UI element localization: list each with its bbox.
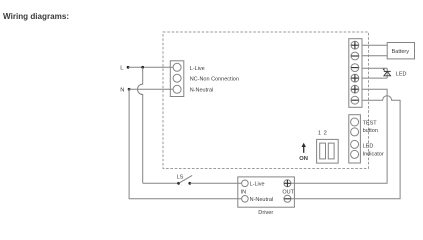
battery box bbox=[387, 43, 414, 59]
LED (diode symbol) bbox=[383, 68, 391, 78]
svg-text:N: N bbox=[120, 87, 124, 93]
TEST button circle 1 bbox=[351, 118, 359, 126]
svg-text:LED: LED bbox=[363, 143, 374, 149]
svg-text:NC-Non Connection: NC-Non Connection bbox=[190, 77, 239, 83]
svg-text:LED: LED bbox=[396, 71, 407, 77]
wire LS switch to driver L-Live bbox=[190, 182, 242, 184]
ON arrow bbox=[302, 143, 306, 153]
wire N to input terminal bbox=[129, 88, 173, 90]
svg-text:LS: LS bbox=[177, 175, 184, 181]
svg-text:OUT: OUT bbox=[282, 189, 294, 195]
wire L to input terminal bbox=[128, 66, 173, 68]
pin 6 (-) bbox=[351, 96, 359, 104]
wire N down to driver bbox=[129, 89, 242, 199]
driver pin - (OUT) bbox=[284, 195, 291, 202]
DIP switch pole 2 bbox=[328, 143, 334, 159]
svg-text:Indicator: Indicator bbox=[363, 152, 384, 158]
node N dot (junction) bbox=[128, 88, 131, 91]
node L dot bbox=[127, 66, 130, 69]
LS switch blade bbox=[179, 175, 193, 183]
DIP switch body bbox=[317, 139, 339, 163]
svg-text:ON: ON bbox=[299, 156, 308, 162]
LS switch contact left bbox=[177, 182, 180, 185]
svg-text:button: button bbox=[363, 128, 378, 134]
DIP switch pole 1 bbox=[320, 143, 326, 159]
svg-text:1: 1 bbox=[318, 131, 321, 137]
svg-text:L-Live: L-Live bbox=[190, 66, 205, 72]
wire battery + bbox=[362, 44, 387, 46]
wire L down to LS switch (with hop over N wire) bbox=[138, 67, 143, 183]
pin 5 (+) bbox=[351, 85, 359, 93]
svg-text:N-Neutral: N-Neutral bbox=[250, 197, 274, 203]
driver pin L-Live bbox=[242, 180, 249, 187]
LED indicator circle 1 bbox=[351, 140, 359, 148]
pin 3 (-) bbox=[351, 64, 359, 72]
driver pin + (OUT) bbox=[284, 180, 291, 187]
TEST/LED indicator block bbox=[349, 115, 361, 163]
pin 1 (+) bbox=[351, 41, 359, 49]
svg-text:Wiring diagrams:: Wiring diagrams: bbox=[3, 12, 69, 21]
wire from L vertical to LS switch bbox=[143, 182, 179, 184]
driver pin N-Neutral bbox=[242, 196, 249, 203]
wire battery - bbox=[362, 55, 387, 57]
wire LED cathode bbox=[362, 67, 387, 69]
wire LED anode bbox=[362, 77, 387, 79]
svg-text:Battery: Battery bbox=[392, 49, 410, 55]
driver box bbox=[238, 177, 295, 207]
svg-text:2: 2 bbox=[324, 131, 327, 137]
pin N-Neutral bbox=[173, 85, 181, 93]
svg-text:IN: IN bbox=[241, 189, 247, 195]
TEST button circle 2 bbox=[351, 128, 359, 136]
junction on L wire bbox=[141, 66, 144, 69]
pin 2 (-) bbox=[351, 52, 359, 60]
wire - output down to driver (hop over + wire) bbox=[291, 96, 400, 199]
svg-text:Driver: Driver bbox=[258, 210, 273, 216]
LS switch contact right bbox=[188, 182, 191, 185]
wire + output down to driver bbox=[291, 89, 387, 183]
LED indicator circle 2 bbox=[351, 150, 359, 158]
pin L-Live bbox=[173, 63, 181, 71]
pin 4 (+) bbox=[351, 74, 359, 82]
pin NC bbox=[173, 74, 181, 82]
emergency module enclosure (dashed box) bbox=[163, 32, 369, 169]
svg-text:L-Live: L-Live bbox=[250, 182, 265, 188]
input terminal block (3-pole) bbox=[170, 61, 184, 97]
svg-text:N-Neutral: N-Neutral bbox=[190, 88, 214, 94]
svg-text:TEST: TEST bbox=[363, 121, 378, 127]
output terminal block (6-pole) bbox=[349, 39, 362, 108]
